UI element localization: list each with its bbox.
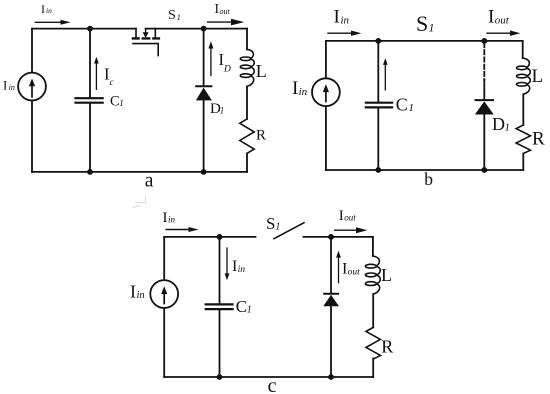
svg-text:L: L bbox=[256, 61, 267, 81]
svg-text:I: I bbox=[163, 210, 168, 226]
svg-text:D: D bbox=[492, 114, 505, 134]
svg-text:b: b bbox=[424, 169, 433, 189]
svg-text:in: in bbox=[341, 14, 350, 26]
svg-text:I: I bbox=[232, 258, 237, 275]
svg-text:in: in bbox=[299, 86, 308, 98]
svg-text:1: 1 bbox=[177, 12, 181, 22]
svg-text:out: out bbox=[495, 14, 510, 26]
svg-text:I: I bbox=[3, 77, 7, 92]
svg-text:L: L bbox=[381, 265, 392, 285]
svg-text:D: D bbox=[223, 64, 231, 74]
svg-text:1: 1 bbox=[409, 102, 415, 114]
svg-text:R: R bbox=[532, 128, 545, 149]
svg-text:in: in bbox=[137, 290, 145, 301]
svg-text:C: C bbox=[236, 297, 247, 316]
svg-text:I: I bbox=[292, 78, 298, 99]
svg-text:I: I bbox=[342, 261, 347, 278]
svg-text:I: I bbox=[339, 208, 344, 224]
svg-text:I: I bbox=[488, 7, 494, 28]
svg-text:1: 1 bbox=[247, 305, 252, 316]
svg-text:I: I bbox=[130, 281, 136, 301]
svg-text:in: in bbox=[9, 83, 15, 92]
svg-text:1: 1 bbox=[119, 98, 124, 108]
svg-text:R: R bbox=[256, 128, 266, 144]
svg-text:C: C bbox=[396, 95, 408, 115]
svg-text:S: S bbox=[266, 214, 275, 233]
svg-text:in: in bbox=[46, 6, 52, 15]
svg-text:out: out bbox=[344, 213, 356, 223]
svg-text:S: S bbox=[168, 8, 176, 23]
svg-text:c: c bbox=[268, 375, 277, 394]
svg-text:I: I bbox=[41, 2, 45, 16]
svg-text:1: 1 bbox=[429, 21, 435, 35]
svg-text:I: I bbox=[334, 7, 340, 28]
svg-text:1: 1 bbox=[275, 222, 280, 233]
svg-text:in: in bbox=[238, 265, 246, 275]
svg-text:L: L bbox=[532, 66, 544, 87]
svg-text:S: S bbox=[416, 11, 428, 36]
svg-text:out: out bbox=[348, 267, 361, 277]
svg-text:1: 1 bbox=[505, 122, 511, 134]
svg-text:R: R bbox=[381, 337, 393, 357]
svg-text:in: in bbox=[168, 215, 176, 225]
svg-text:out: out bbox=[220, 7, 231, 16]
svg-text:a: a bbox=[145, 171, 154, 192]
svg-text:1: 1 bbox=[220, 106, 225, 116]
